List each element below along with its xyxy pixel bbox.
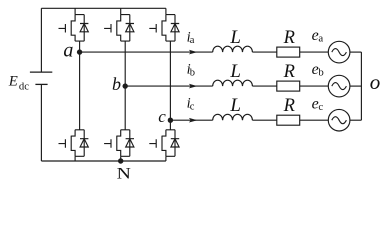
resistor R (phase b): [277, 81, 300, 91]
wire: resistor to source e_a: [300, 51, 329, 53]
inductor L (phase b): [213, 80, 253, 86]
svg-text:b: b: [112, 74, 121, 94]
diode D2 (antiparallel, lower leg a): [80, 130, 88, 157]
label source e_a: [312, 27, 324, 45]
wire: upper cell to node b: [124, 41, 126, 86]
inductor L (phase a): [213, 46, 253, 52]
AC source e_b: [328, 75, 350, 97]
wire: top rail to upper cell leg c: [165, 8, 167, 14]
svg-text:c: c: [190, 101, 195, 112]
transistor Q3 (upper leg b): [104, 15, 121, 41]
wire: inductor to resistor (phase c): [252, 119, 276, 121]
svg-text:a: a: [190, 35, 195, 46]
wire: lower cell to bottom rail leg a: [74, 156, 76, 161]
wire: resistor to source e_b: [300, 85, 329, 87]
wire: Q4/D4 connection bars: [121, 130, 130, 157]
resistor R (phase a): [277, 47, 300, 57]
transistor Q1 (upper leg a): [59, 15, 76, 41]
svg-text:L: L: [229, 95, 241, 116]
svg-text:R: R: [283, 96, 295, 116]
wire: source e_b to neutral bus: [350, 85, 362, 87]
label source e_b: [312, 61, 324, 79]
svg-text:L: L: [229, 27, 241, 48]
AC source e_c: [328, 109, 350, 131]
DC source E_dc (battery): [40, 8, 42, 161]
wire: neutral bus (node o): [360, 52, 362, 120]
svg-text:E: E: [8, 74, 18, 90]
wire: bottom DC rail: [41, 160, 165, 162]
node N (junction dot on bottom rail): [118, 158, 123, 163]
svg-text:c: c: [318, 101, 323, 113]
svg-text:R: R: [283, 28, 295, 48]
diode D1 (antiparallel, upper leg a): [80, 15, 88, 41]
svg-text:b: b: [190, 67, 195, 78]
svg-text:a: a: [318, 33, 323, 45]
svg-text:dc: dc: [19, 80, 29, 92]
current arrow i_a: [189, 50, 198, 55]
resistor R (phase c): [277, 115, 300, 125]
diode D6 (antiparallel, lower leg c): [171, 130, 179, 157]
wire: node b to lower cell: [124, 86, 126, 130]
wire: Q1/D1 connection bars: [75, 15, 84, 41]
current arrow i_c: [189, 118, 198, 123]
wire: phase b line from node to inductor: [125, 85, 213, 87]
AC source e_a: [328, 41, 350, 63]
svg-text:L: L: [229, 61, 241, 82]
svg-text:R: R: [283, 62, 295, 82]
wire: inductor to resistor (phase a): [252, 51, 276, 53]
svg-text:b: b: [318, 67, 323, 79]
wire: Q5/D5 connection bars: [166, 15, 175, 41]
wire: lower cell to bottom rail leg b: [120, 156, 122, 161]
wire: node a to lower cell: [79, 52, 81, 130]
wire: Q6/D6 connection bars: [166, 130, 175, 157]
diode D3 (antiparallel, upper leg b): [126, 15, 134, 41]
battery long plate (+): [30, 71, 52, 73]
label current i_c: [187, 96, 195, 113]
battery short plate (-): [35, 83, 47, 85]
transistor Q2 (lower leg a): [59, 130, 76, 157]
transistor Q5 (upper leg c): [149, 15, 166, 41]
wire: inductor to resistor (phase b): [252, 85, 276, 87]
diode D4 (antiparallel, lower leg b): [126, 130, 134, 157]
wire: Q2/D2 connection bars: [75, 130, 84, 157]
label current i_b: [187, 61, 195, 78]
node c (junction dot): [168, 118, 173, 123]
wire: Q3/D3 connection bars: [121, 15, 130, 41]
wire: upper cell to node a: [79, 41, 81, 52]
wire: top rail to upper cell leg b: [120, 8, 122, 14]
current arrow i_b: [189, 84, 198, 89]
label E_dc: [8, 74, 29, 93]
wire: source e_c to neutral bus: [350, 119, 362, 121]
wire: phase a line from node to inductor: [80, 51, 213, 53]
wire: top rail to upper cell leg a: [74, 8, 76, 14]
transistor Q6 (lower leg c): [149, 130, 166, 157]
svg-text:o: o: [370, 70, 381, 94]
wire: phase c line from node to inductor: [170, 119, 212, 121]
svg-text:c: c: [158, 107, 166, 126]
wire: node c to lower cell: [169, 120, 171, 130]
wire: upper cell to node c: [169, 41, 171, 120]
inductor L (phase c): [213, 114, 253, 120]
label current i_a: [187, 29, 195, 46]
node b (junction dot): [123, 83, 128, 88]
label source e_c: [312, 95, 324, 113]
diode D5 (antiparallel, upper leg c): [171, 15, 179, 41]
wire: lower cell to bottom rail leg c: [165, 156, 167, 161]
svg-text:N: N: [117, 164, 131, 182]
wire: resistor to source e_c: [300, 119, 329, 121]
node a (junction dot): [77, 49, 82, 54]
svg-text:a: a: [63, 40, 73, 62]
wire: top DC rail: [41, 7, 165, 9]
wire: source e_a to neutral bus: [350, 51, 362, 53]
transistor Q4 (lower leg b): [104, 130, 121, 157]
